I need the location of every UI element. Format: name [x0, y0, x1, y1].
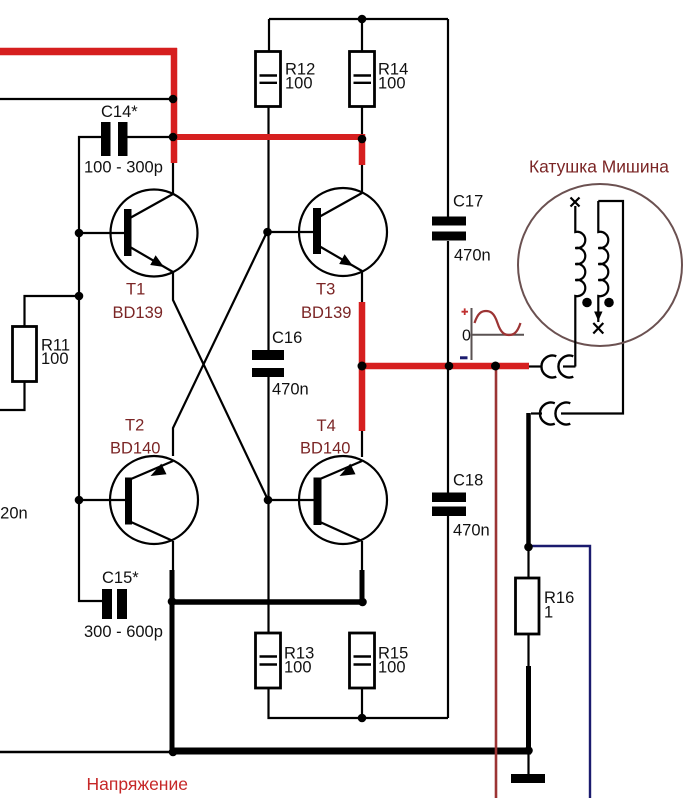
resistor R15	[350, 633, 409, 688]
wire	[270, 499, 314, 501]
resistor R14	[350, 52, 409, 107]
wire (dark red probe)	[495, 366, 498, 798]
wire	[173, 272, 268, 500]
capacitor C17	[432, 193, 491, 265]
svg-text:T3: T3	[316, 281, 335, 299]
connector J1	[529, 356, 576, 378]
wire	[79, 137, 102, 601]
wire (red horizontal to T3)	[171, 134, 362, 165]
svg-text:300 - 600p: 300 - 600p	[84, 623, 163, 641]
wire	[0, 98, 173, 100]
wire (thick emitter bus left)	[170, 570, 175, 752]
svg-text:C18: C18	[453, 472, 483, 490]
svg-text:BD139: BD139	[301, 304, 351, 322]
wire	[269, 688, 449, 718]
resistor R12	[256, 52, 316, 107]
Mishin coil circle	[518, 157, 682, 347]
svg-text:0: 0	[462, 328, 471, 345]
svg-text:100 - 300p: 100 - 300p	[84, 159, 163, 177]
svg-text:T2: T2	[125, 417, 144, 435]
svg-text:470n: 470n	[453, 522, 490, 540]
svg-text:100: 100	[41, 350, 69, 368]
wire	[527, 547, 529, 666]
wire	[361, 541, 363, 570]
wire	[79, 499, 125, 501]
node Напряжение label	[87, 774, 188, 794]
wire	[270, 231, 313, 233]
transistor T3	[299, 188, 387, 322]
capacitor C18	[432, 472, 490, 540]
capacitor C16	[252, 329, 309, 399]
svg-text:100: 100	[378, 75, 406, 93]
wire (bottom bus thick)	[172, 748, 531, 755]
wire	[127, 136, 171, 138]
wire	[172, 541, 174, 570]
svg-text:Напряжение: Напряжение	[87, 774, 188, 794]
svg-text:BD139: BD139	[113, 304, 163, 322]
svg-text:100: 100	[284, 659, 312, 677]
wire	[173, 232, 267, 456]
wire (red supply top)	[0, 48, 177, 163]
wire	[361, 165, 363, 193]
wire	[267, 19, 270, 633]
svg-text:C14*: C14*	[101, 103, 138, 121]
wire	[361, 19, 363, 134]
transistor T4	[299, 417, 387, 544]
svg-text:470n: 470n	[272, 381, 309, 399]
ground	[511, 774, 545, 783]
wire	[172, 163, 174, 194]
svg-text:470n: 470n	[454, 247, 491, 265]
wire	[361, 271, 363, 302]
wire	[527, 751, 529, 774]
svg-text:100: 100	[285, 75, 313, 93]
resistor R13	[256, 633, 315, 688]
wire (blue)	[531, 546, 590, 798]
capacitor C14	[84, 103, 163, 177]
svg-text:C17: C17	[453, 193, 483, 211]
svg-text:100: 100	[378, 659, 406, 677]
svg-text:BD140: BD140	[300, 440, 350, 458]
svg-text:220n: 220n	[0, 505, 28, 523]
transistor T2	[110, 417, 198, 545]
capacitor C15	[84, 569, 163, 641]
wire (T4 bottom thick)	[360, 570, 365, 602]
svg-text:T4: T4	[317, 417, 336, 435]
wire (thick bus y602)	[170, 599, 364, 605]
svg-text:C15*: C15*	[102, 569, 139, 587]
wire (thick above ground)	[526, 666, 531, 751]
resistor R16	[516, 578, 575, 634]
wire	[269, 18, 448, 20]
wire	[447, 19, 449, 718]
inductor L2 (right winding)	[593, 201, 614, 334]
svg-text:Катушка Мишина: Катушка Мишина	[529, 157, 669, 177]
svg-text:BD140: BD140	[110, 440, 160, 458]
svg-text:C16: C16	[272, 329, 302, 347]
wire	[0, 751, 173, 753]
node junctions	[75, 15, 533, 757]
resistor R11	[13, 327, 71, 382]
node 220n label	[0, 505, 28, 523]
transistor T1	[111, 190, 198, 323]
wire	[361, 431, 363, 457]
wire	[79, 232, 124, 234]
inductor L1 (left winding)	[571, 198, 592, 367]
wire (red output vertical)	[359, 302, 366, 431]
connector J2	[531, 201, 623, 425]
wire (red output horizontal)	[359, 363, 529, 370]
svg-text:1: 1	[544, 604, 553, 622]
wire	[0, 296, 79, 410]
svg-text:T1: T1	[126, 281, 145, 299]
waveform icon	[460, 308, 524, 360]
wire (thick to connector 2)	[526, 413, 531, 547]
